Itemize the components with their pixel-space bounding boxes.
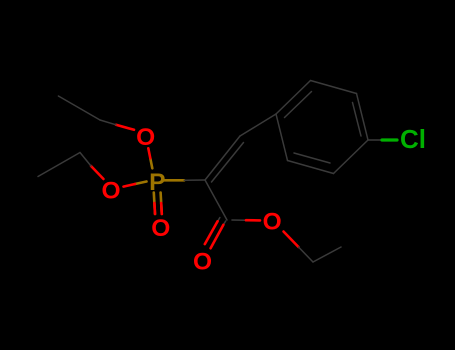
wire C1-O5 bond [232, 219, 260, 221]
wire C6-C7 bond [38, 153, 80, 177]
svg-text:O: O [193, 249, 212, 276]
wire P-C2 bond [164, 179, 205, 182]
wire P-O1 bond [148, 148, 152, 168]
wire C3-ring ipso bond [240, 114, 276, 136]
wire C4-C5 bond [58, 96, 100, 120]
svg-text:O: O [101, 177, 120, 204]
wire C8-C9 bond [313, 247, 341, 262]
svg-text:Cl: Cl [400, 124, 426, 154]
svg-text:O: O [136, 124, 155, 151]
wire P=O3 double bond [154, 193, 162, 215]
benzene ring [276, 81, 368, 174]
svg-text:P: P [149, 169, 165, 196]
wire ring-Cl bond [368, 139, 397, 141]
wire P-O2 bond [124, 182, 147, 187]
svg-text:O: O [151, 215, 170, 242]
wire C2=C3 double bond [205, 136, 244, 182]
wire O5-C8 bond [284, 232, 314, 263]
svg-text:O: O [263, 208, 282, 235]
wire C1=O4 double bond [205, 218, 226, 249]
wire O2-C6 bond [80, 153, 104, 180]
wire C2-C1 bond [205, 180, 227, 220]
wire O1-C4 bond [100, 120, 134, 130]
